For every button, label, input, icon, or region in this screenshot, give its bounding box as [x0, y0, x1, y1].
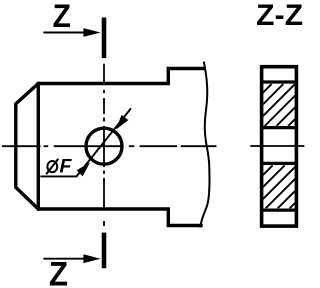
view direction arrow bottom — [43, 254, 100, 263]
leader arrowhead lower-left — [77, 163, 90, 177]
cutting plane mark top — [102, 18, 107, 59]
hatch upper — [230, 84, 320, 126]
view direction arrow top — [43, 28, 100, 37]
section outline — [262, 67, 297, 226]
label diameter symbol — [46, 159, 58, 174]
hole circle — [86, 128, 122, 164]
cutting plane mark bottom — [102, 233, 107, 269]
part outline — [16, 69, 204, 226]
svg-text:F: F — [60, 156, 73, 178]
hatch lower — [230, 165, 320, 208]
hole edge line upper — [260, 126, 298, 129]
hole edge line lower — [260, 162, 298, 165]
leader arrowhead upper-right — [116, 115, 128, 130]
break line — [200, 62, 209, 228]
groove line bottom — [260, 209, 298, 212]
diameter leader line — [40, 108, 131, 176]
svg-text:Z: Z — [49, 254, 68, 288]
center line vertical — [103, 64, 105, 226]
svg-text:Z-Z: Z-Z — [256, 0, 303, 32]
svg-text:Z: Z — [53, 0, 71, 34]
groove line top — [260, 80, 298, 83]
center line horizontal — [2, 145, 217, 147]
section center line — [250, 145, 304, 147]
